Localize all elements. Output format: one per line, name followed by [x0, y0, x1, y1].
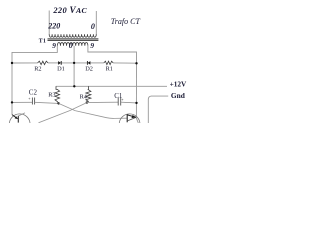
wire primary right lead: [95, 11, 97, 34]
svg-text:D1: D1: [57, 65, 65, 72]
transformer T1 secondary winding: [57, 43, 88, 46]
svg-text:0: 0: [69, 41, 73, 50]
wire secondary left tap: [12, 46, 57, 63]
wire D1 to D2: [61, 62, 87, 64]
transformer T1 core line upper: [48, 38, 99, 40]
wire Gnd lead with curve: [148, 96, 168, 123]
wire secondary right tap: [88, 46, 137, 63]
svg-text:T1: T1: [39, 39, 47, 45]
wire left vertical rail: [11, 63, 13, 115]
wire R4 bottom to C1: [87, 101, 118, 103]
wire R1 to right rail: [113, 62, 136, 64]
svg-text:0: 0: [91, 22, 95, 31]
transistor Q2: [119, 114, 140, 135]
wire R2 to D1: [48, 62, 58, 64]
wire C2 row left: [12, 101, 32, 103]
wire D2 to R1: [90, 62, 104, 64]
wire mid rail to +12V: [56, 85, 167, 87]
wire primary left lead: [48, 11, 50, 35]
svg-text:C1: C1: [114, 92, 123, 100]
junction node rail-left: [11, 62, 13, 64]
wire C2 to R3 bottom: [35, 102, 59, 103]
resistor R1: [104, 61, 113, 64]
wire right vertical rail: [135, 63, 137, 117]
svg-text:Trafo CT: Trafo CT: [111, 17, 141, 26]
junction node rail-center: [73, 62, 75, 64]
svg-text:R4: R4: [80, 93, 88, 100]
svg-text:220 VAC: 220 VAC: [52, 5, 87, 15]
junction node right-low: [135, 102, 137, 104]
svg-text:C2: C2: [29, 89, 38, 97]
wire diagonal R4-bottom to left transistor: [39, 103, 87, 123]
wire rail left to R2: [12, 62, 38, 64]
junction node rail-right: [135, 62, 137, 64]
transformer T1 primary winding: [49, 34, 96, 37]
svg-text:9: 9: [90, 41, 94, 50]
resistor R3: [55, 86, 60, 103]
svg-text:R1: R1: [106, 66, 113, 73]
capacitor C1: [117, 98, 119, 106]
svg-text:Gnd: Gnd: [171, 91, 186, 100]
svg-text:R3: R3: [48, 92, 55, 99]
wire diagonal R3-bottom to right transistor base: [59, 103, 127, 118]
svg-text:220: 220: [47, 22, 60, 31]
diode D1: [58, 61, 61, 65]
svg-text:D2: D2: [85, 65, 93, 72]
junction node mid-center-tap: [73, 85, 75, 87]
diode D2: [88, 61, 91, 65]
svg-text:R2: R2: [34, 66, 41, 73]
wire C1 to right rail: [121, 101, 137, 104]
resistor R2: [38, 61, 48, 64]
junction node R4 bottom: [86, 101, 88, 103]
capacitor C2: [31, 98, 33, 105]
wire secondary center tap: [73, 46, 75, 87]
transistor Q1: [9, 114, 30, 135]
junction node R3 bottom: [57, 102, 59, 104]
svg-text:9: 9: [52, 41, 56, 50]
svg-text:+: +: [28, 96, 31, 101]
transformer T1 core line lower: [48, 39, 99, 41]
svg-text:+12V: +12V: [170, 80, 187, 89]
junction node left-low: [11, 101, 13, 103]
resistor R4: [86, 86, 91, 102]
